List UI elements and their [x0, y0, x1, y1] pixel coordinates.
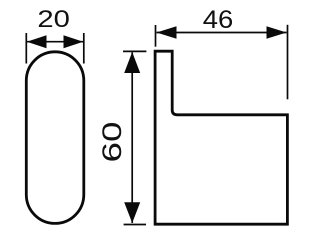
dim 20: right extension line — [83, 33, 85, 64]
svg-text:20: 20 — [37, 6, 70, 33]
dim 60: top tick — [123, 50, 146, 52]
dim 20: left arrow — [27, 35, 47, 48]
side view: L-profile outline — [155, 51, 287, 224]
dim 46: dimension line — [157, 32, 287, 34]
dim 46: left extension line — [155, 25, 157, 47]
dim 60: bottom tick — [124, 224, 146, 226]
dim 60: up arrow — [124, 52, 140, 73]
dim 46: right arrow — [267, 26, 287, 39]
dim 46: left arrow — [157, 26, 177, 39]
dim 20: right arrow — [64, 35, 84, 48]
svg-text:46: 46 — [203, 6, 234, 34]
dim 60: dimension line — [131, 52, 133, 223]
front view: pill outline — [26, 52, 84, 224]
dim 46: right extension line — [287, 25, 289, 100]
dim 60: down arrow — [124, 202, 140, 223]
dim 20: dimension line — [27, 41, 83, 43]
svg-text:60: 60 — [97, 122, 127, 163]
dim 20: left extension line — [25, 33, 27, 64]
